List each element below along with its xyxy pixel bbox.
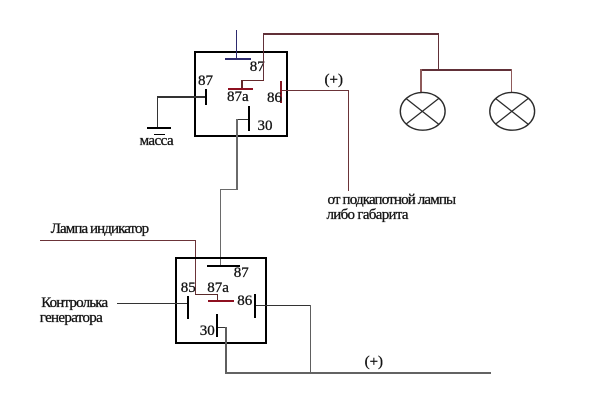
- net label генератора: [40, 311, 102, 326]
- pin 87 (K2 top) terminal bar: [207, 265, 240, 267]
- pin 30 (K1) terminal bar: [248, 106, 250, 131]
- pin label 87 (K1 left): [198, 74, 213, 89]
- annotation либо габарита: [327, 208, 408, 223]
- pin label 86 (K2): [237, 294, 252, 309]
- pin label 85 (K2): [181, 281, 196, 296]
- pin 87 (K1 left) terminal bar: [205, 89, 207, 105]
- wire bottom (+) bus: [225, 372, 491, 374]
- wire контролька horizontal: [117, 303, 188, 304]
- net label Лампа индикатор: [51, 222, 148, 237]
- wire 86 (K2) vertical down: [310, 305, 311, 373]
- pin 87a (K1) red terminal bar: [228, 88, 253, 90]
- wire 86 net vertical down: [348, 90, 349, 191]
- lamp L2: [487, 90, 537, 134]
- ground symbol bar 2: [154, 134, 165, 136]
- pin 87 (K1 top) blue terminal bar: [225, 58, 251, 60]
- net label (+) top: [325, 73, 343, 88]
- pin label 30 (K1): [258, 119, 273, 134]
- wire лампа индикатор horizontal: [40, 240, 196, 241]
- pin label 87a (K2): [207, 281, 229, 296]
- wire 30(K1)-87(K2) jog horizontal: [220, 189, 238, 190]
- wire 86 (K2) horizontal: [256, 305, 311, 306]
- pin label 30 (K2): [200, 324, 215, 339]
- pin 86 (K2) terminal bar: [254, 294, 256, 319]
- pin 87a (K2) red terminal bar: [208, 300, 234, 302]
- relay K2 box: [175, 257, 268, 343]
- wire 87a step horizontal (K1): [241, 80, 264, 81]
- net label масса: [140, 134, 173, 149]
- net label Контролька: [41, 296, 107, 311]
- pin 85 (K2) terminal bar: [187, 296, 189, 320]
- wire масса horizontal: [157, 96, 205, 97]
- wire 30 (K2) vertical down: [225, 327, 226, 373]
- wire 30(K1)-87(K2) vertical upper: [236, 119, 237, 190]
- pin label 86 (K1): [267, 91, 282, 106]
- wire 30 (K1) horizontal stub: [237, 119, 248, 120]
- pin label 87a (K1): [227, 90, 249, 105]
- wire drop to lamp L2: [511, 69, 512, 92]
- pin label 87 (K2): [234, 266, 249, 281]
- wire масса vertical: [157, 96, 158, 127]
- wire 86 (K1) to (+) horizontal: [282, 90, 349, 91]
- wire 87a step vertical (K1): [241, 80, 242, 89]
- wire lamp net: vertical drop into K1: [263, 33, 264, 80]
- wire 30(K1)-87(K2) vertical lower: [220, 189, 221, 266]
- pin 86 (K1) red terminal bar: [280, 81, 282, 103]
- wire drop to lamp L1: [420, 69, 421, 92]
- ground symbol bar 1: [147, 127, 171, 129]
- wire lamp net lower horizontal: [421, 69, 513, 71]
- wire 87a step horizontal (K2): [195, 294, 219, 295]
- wire лампа индикатор vertical: [195, 240, 196, 295]
- wire lamp net: horizontal top: [263, 33, 440, 35]
- relay K1 box: [194, 51, 289, 137]
- wire blue stub into pin 87 K1: [236, 30, 238, 60]
- wire 87a step vertical (K2): [217, 294, 218, 301]
- lamp L1: [398, 90, 448, 134]
- wire 30 (K2) horizontal stub: [218, 327, 227, 328]
- wire lamp net corner vertical: [438, 33, 440, 70]
- annotation от подкапотной лампы: [328, 193, 456, 208]
- pin 30 (K2) terminal bar: [216, 314, 218, 337]
- net label (+) bottom: [365, 355, 383, 370]
- pin label 87 (K1 top): [250, 60, 265, 75]
